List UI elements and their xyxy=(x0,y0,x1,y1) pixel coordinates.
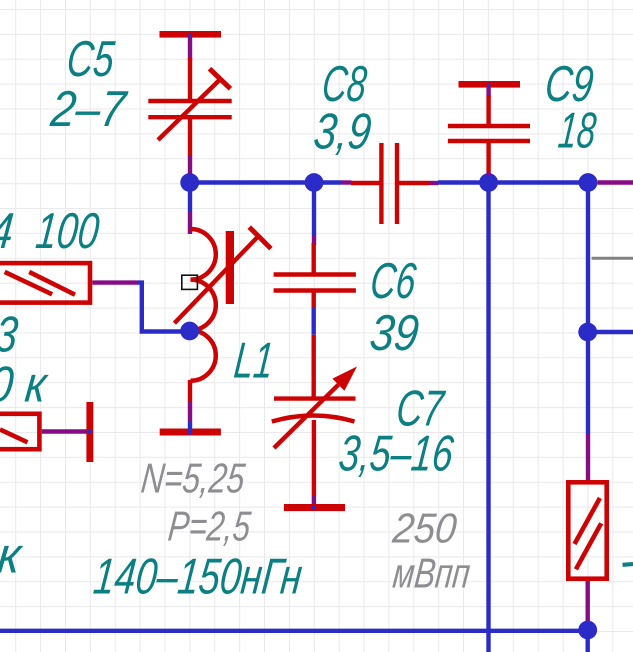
wire C9 to node C xyxy=(486,171,490,175)
capacitor C6 pin top xyxy=(312,243,316,275)
capacitor C8 pin right xyxy=(397,181,429,185)
wire below node G xyxy=(586,630,590,652)
resistor R4 body xyxy=(0,263,90,303)
wire node A to node B xyxy=(190,180,314,184)
svg-text:N=5,25: N=5,25 xyxy=(139,454,247,501)
svg-text:140–150нГн: 140–150нГн xyxy=(91,548,305,605)
wire node B to C8 xyxy=(314,180,351,184)
svg-text:100: 100 xyxy=(33,202,102,259)
svg-text:39: 39 xyxy=(367,304,421,361)
wire node C down to bottom xyxy=(486,183,490,652)
wire resistor to node G xyxy=(586,581,590,622)
wire node F to right edge xyxy=(588,330,633,334)
terminal bar bottom of C7 xyxy=(284,504,345,511)
resistor (lower left) body xyxy=(0,414,39,449)
capacitor C7 pin bottom xyxy=(312,420,316,496)
svg-text:250: 250 xyxy=(390,505,460,552)
inductor L1 winding xyxy=(191,229,216,381)
capacitor C9 pin top xyxy=(486,95,490,126)
svg-text:L1: L1 xyxy=(232,332,277,389)
wire node A down to L1 xyxy=(188,183,192,235)
svg-text:С6: С6 xyxy=(368,252,419,309)
junction node G xyxy=(578,621,597,640)
wire L1 bottom xyxy=(188,380,192,422)
capacitor C5 pin top xyxy=(188,58,192,101)
terminal bar (vertical, lower left) xyxy=(86,402,93,462)
resistor (right) body xyxy=(568,482,606,578)
capacitor C6 plates xyxy=(274,275,356,291)
wire node D down to resistor xyxy=(586,183,590,482)
junction node E (L1 tap) xyxy=(180,322,199,341)
wire C6 to C7 xyxy=(312,307,316,335)
teal stub text (right edge) xyxy=(622,562,633,567)
svg-text:3,9: 3,9 xyxy=(311,103,374,160)
capacitor C7 arrow xyxy=(274,367,357,449)
capacitor C7 curved plate xyxy=(272,416,355,422)
marker square on L1 xyxy=(182,275,198,289)
capacitor C9 plates xyxy=(448,126,530,141)
wire C9 top stem xyxy=(487,83,490,97)
junction node F xyxy=(578,323,597,342)
capacitor C8 plates xyxy=(381,143,397,224)
capacitor C5 trimmer adjuster xyxy=(158,69,230,140)
svg-text:мВпп: мВпп xyxy=(391,550,473,597)
capacitor C7 pin top xyxy=(312,335,316,399)
svg-text:2–7: 2–7 xyxy=(47,80,129,137)
wire C5 to node A xyxy=(188,156,192,182)
junction node C xyxy=(479,173,498,192)
capacitor C9 pin bottom xyxy=(486,141,490,171)
terminal bar bottom of L1 xyxy=(160,422,221,436)
wire C8 to node C xyxy=(429,180,489,185)
svg-text:0 к: 0 к xyxy=(0,355,51,412)
wire node D to right edge xyxy=(597,180,633,184)
capacitor C7 fixed plate xyxy=(274,396,356,400)
wire node B down to C6 xyxy=(312,183,316,246)
wire C5 top stem xyxy=(188,33,191,60)
inductor L1 trimmer adjuster xyxy=(174,227,271,323)
junction node D xyxy=(579,173,598,192)
junction node B xyxy=(305,173,324,192)
junction node A xyxy=(180,173,199,192)
wire R4 to L1 tap xyxy=(92,283,189,332)
terminal bar top of C9 xyxy=(459,81,521,88)
capacitor C8 pin left xyxy=(351,181,381,185)
svg-text:С5: С5 xyxy=(64,30,117,87)
gray stub line (right edge) xyxy=(592,257,633,260)
svg-text:3,5–16: 3,5–16 xyxy=(336,424,456,481)
wire node C to node D xyxy=(489,180,588,184)
inductor L1 core xyxy=(226,231,234,304)
svg-text:P=2,5: P=2,5 xyxy=(166,502,253,549)
capacitor C5 pin bottom xyxy=(188,117,192,157)
bottom rail wire xyxy=(0,629,588,633)
wire resistor to terminal bar xyxy=(42,429,89,433)
capacitor C5 plates xyxy=(148,101,231,117)
terminal bar top of C5 xyxy=(160,31,222,38)
capacitor C6 pin bottom xyxy=(312,291,316,308)
svg-text:18: 18 xyxy=(556,102,599,159)
wire C7 to bottom bar xyxy=(312,496,316,505)
